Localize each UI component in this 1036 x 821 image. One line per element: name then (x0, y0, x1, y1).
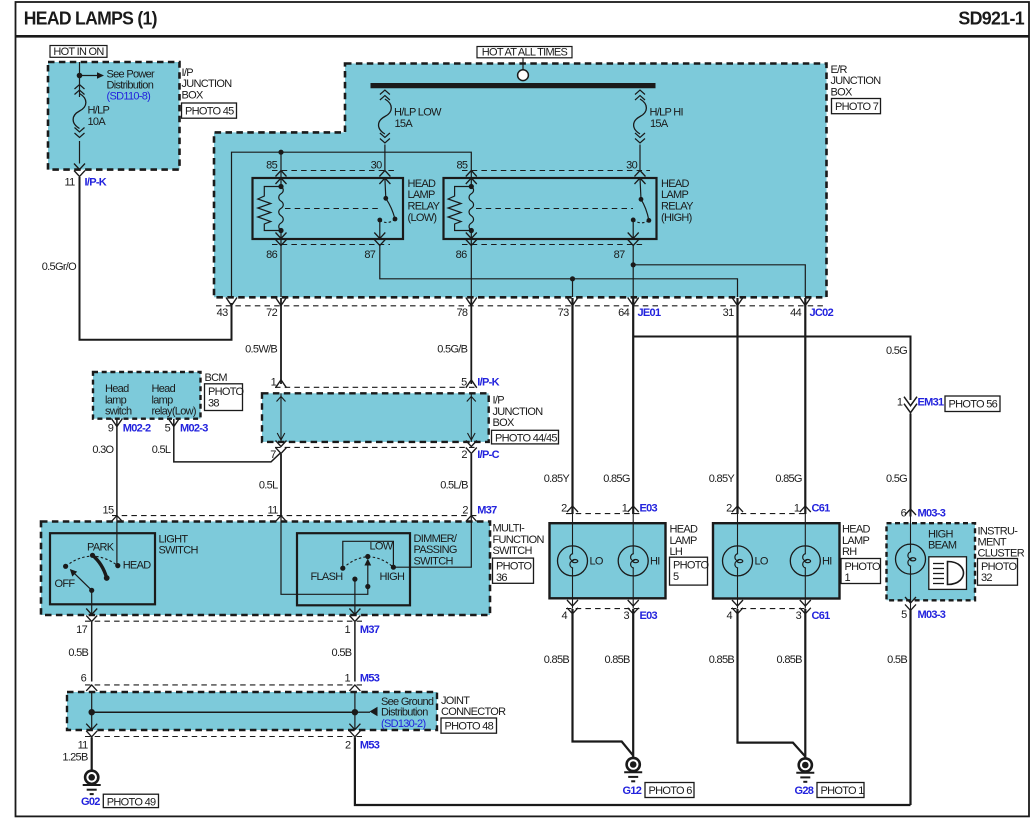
label (SD110-8) blue (107, 91, 151, 103)
svg-text:SWITCH: SWITCH (493, 545, 533, 557)
label See Power Distribution (107, 68, 156, 91)
svg-text:LO: LO (590, 556, 604, 568)
photo box PHOTO 48 (441, 718, 497, 733)
svg-text:LIGHT: LIGHT (159, 533, 189, 545)
svg-text:0.5W/B: 0.5W/B (245, 344, 277, 356)
label LOW (370, 541, 394, 553)
pin 30 label (relay low) (371, 159, 382, 171)
connector I/P-K label blue (pin 5) (477, 377, 499, 389)
svg-text:0.5L: 0.5L (152, 444, 171, 456)
svg-text:JE01: JE01 (638, 307, 661, 319)
wire fuse hi to relay 30 (639, 145, 641, 171)
label 1.25B (62, 752, 88, 764)
label 0.3O (92, 444, 114, 456)
svg-text:(HIGH): (HIGH) (661, 212, 692, 224)
pin 5 label (M03-3) (901, 609, 907, 621)
svg-text:Distribution: Distribution (107, 79, 154, 91)
svg-text:PHOTO 48: PHOTO 48 (445, 720, 494, 732)
wire relay low 87 to pins 73/31 (380, 246, 738, 297)
svg-text:6: 6 (901, 508, 907, 520)
svg-text:E03: E03 (640, 610, 658, 622)
svg-text:EM31: EM31 (918, 397, 945, 409)
relay low switch (377, 178, 397, 239)
svg-text:5: 5 (901, 609, 907, 621)
JC bus junction dot right (352, 709, 358, 715)
svg-text:PHOTO 44/45: PHOTO 44/45 (495, 433, 557, 445)
label 0.85Y RH (709, 473, 736, 485)
pin 72 exit chevron (E/R bottom) (276, 298, 287, 306)
pin 86 label (relay high) (456, 249, 467, 261)
label PARK (87, 542, 115, 554)
multi-function switch box (cyan dashed) (41, 522, 490, 616)
svg-text:0.85B: 0.85B (777, 654, 803, 666)
head lamp relay LOW box (253, 178, 404, 239)
label Head lamp switch (105, 383, 132, 417)
pin 2 entry chevrons (MFS) (466, 516, 477, 531)
relay HIGH connector dashed line top (462, 170, 650, 172)
svg-text:LAMP: LAMP (670, 535, 698, 547)
photo box PHOTO 38 (205, 384, 245, 411)
see ground distribution arrow (355, 707, 378, 716)
connector C61 label blue (top) (812, 503, 831, 515)
pin 4 exit chevrons (E03) (567, 600, 578, 614)
title HEAD LAMPS (1) (24, 9, 158, 29)
wire 1.25B to ground G02 (91, 737, 93, 771)
pin 85 label (relay low) (266, 159, 277, 171)
svg-text:LH: LH (670, 546, 683, 558)
svg-text:86: 86 (266, 249, 277, 261)
svg-text:SD921-1: SD921-1 (958, 9, 1024, 29)
svg-text:11: 11 (78, 740, 89, 752)
svg-text:5: 5 (673, 571, 679, 583)
svg-text:BOX: BOX (493, 417, 515, 429)
ground G28 label blue (795, 785, 814, 797)
svg-text:0.5Gr/O: 0.5Gr/O (42, 261, 77, 273)
wire 15 to HEAD contact (116, 516, 118, 564)
svg-text:2: 2 (561, 503, 567, 515)
JC ground bus line (92, 711, 355, 713)
label LIGHT SWITCH (159, 533, 199, 556)
JC bus junction dot left (89, 709, 95, 715)
svg-text:44: 44 (790, 307, 801, 319)
joint connector box (cyan dashed) (67, 692, 437, 730)
svg-text:I/P: I/P (182, 67, 194, 79)
svg-text:3: 3 (796, 610, 802, 622)
in-line connector EM31 chevrons (904, 397, 917, 413)
svg-text:H/LP HI: H/LP HI (650, 106, 684, 118)
svg-text:PHOTO: PHOTO (981, 561, 1018, 573)
svg-text:PHOTO 45: PHOTO 45 (185, 105, 234, 117)
label HEAD LAMP RELAY (HIGH) (661, 178, 694, 224)
svg-text:(LOW): (LOW) (408, 212, 437, 224)
I/P junction box middle (cyan dashed) (262, 393, 489, 442)
pin 86 high exit chevrons (466, 233, 477, 246)
high beam indicator bulb (896, 517, 926, 611)
svg-text:HEAD: HEAD (661, 178, 690, 190)
pin 85 label (relay high) (456, 159, 467, 171)
pin 3 exit chevrons (C61) (800, 600, 811, 614)
JC bottom connector dashed line (85, 736, 362, 738)
wire 0.5B long (M53 2 to cluster 5) (355, 737, 911, 805)
svg-text:LOW: LOW (370, 541, 394, 553)
label MULTI-FUNCTION SWITCH (493, 523, 545, 557)
svg-text:HI: HI (822, 556, 832, 568)
svg-text:36: 36 (496, 572, 507, 584)
svg-text:FLASH: FLASH (311, 571, 344, 583)
pin 44 label (790, 307, 801, 319)
svg-text:6: 6 (81, 672, 87, 684)
wire 0.5B (cluster 5 to bottom) (909, 610, 911, 805)
svg-text:M53: M53 (360, 672, 380, 684)
pin 85 low entry chevrons (276, 171, 287, 185)
RH HI bulb (790, 514, 820, 609)
svg-text:JOINT: JOINT (441, 695, 470, 707)
label OFF (55, 578, 76, 590)
connector E03 label blue (bottom) (640, 610, 658, 622)
pin 2 label (MFS) (462, 505, 468, 517)
svg-text:0.85B: 0.85B (544, 654, 570, 666)
label BCM (205, 372, 228, 384)
pin 30 label (relay high) (626, 159, 637, 171)
svg-text:73: 73 (558, 307, 569, 319)
pin 31 exit chevron (E/R bottom) (732, 298, 743, 306)
pin 5 exit chevrons (M03-3) (905, 597, 916, 610)
svg-text:M03-3: M03-3 (918, 609, 946, 621)
svg-text:11: 11 (267, 505, 278, 517)
wire branch down to pin 73 (572, 279, 574, 297)
wire 0.5L/B (I/P JB 2 to MFS 2) (470, 454, 472, 516)
photo box PHOTO 6 (645, 783, 694, 798)
svg-text:5: 5 (165, 423, 171, 435)
svg-text:15A: 15A (395, 118, 414, 130)
svg-text:64: 64 (618, 307, 629, 319)
dimmer moving arm (arrow) (364, 559, 371, 590)
pin 17 label (76, 624, 87, 636)
pin 2 exit chevrons (M53) (349, 724, 360, 737)
light switch actuator arm (70, 569, 94, 593)
svg-text:3: 3 (623, 610, 629, 622)
wire 0.5L (I/P JB 7 to MFS 11) (280, 454, 282, 516)
svg-text:BOX: BOX (831, 86, 853, 98)
svg-text:5: 5 (461, 377, 467, 389)
connector M03-3 label blue (top) (918, 508, 946, 520)
label 0.85G LH (603, 473, 630, 485)
fuse H/LP 10A symbol (73, 85, 86, 138)
label 0.5L BCM (152, 444, 171, 456)
svg-text:HEAD: HEAD (842, 524, 871, 536)
label H/LP LOW 15A (394, 106, 442, 130)
label 0.5L lower (259, 480, 278, 492)
pin 64 exit chevron (E/R bottom) (628, 298, 639, 306)
wire relay low 86 to pin 72 (280, 231, 282, 298)
label H/LP HI 15A (650, 106, 684, 130)
svg-text:M02-3: M02-3 (180, 423, 208, 435)
wire 0.85Y (31 to RH LO) (736, 298, 738, 514)
svg-text:H/LP: H/LP (88, 105, 110, 117)
photo box PHOTO 36 (493, 558, 534, 584)
junction dot at pin 73 branch (570, 276, 575, 281)
label HI (RH) (822, 556, 832, 568)
wire relay high 86 to pin 78 (470, 231, 472, 298)
svg-text:I/P-K: I/P-K (85, 177, 107, 189)
wire 2 to HIGH contact (393, 516, 471, 567)
power bus bar (371, 83, 656, 88)
wire 85 low drop (280, 152, 282, 186)
svg-text:OFF: OFF (55, 578, 76, 590)
label DIMMER/PASSING SWITCH (414, 533, 458, 567)
label Head lamp relay(Low) (152, 383, 196, 417)
connector M37 label blue (top) (477, 505, 497, 517)
svg-text:BOX: BOX (182, 89, 204, 101)
photo box PHOTO 1 (G28) (817, 783, 864, 798)
light switch contact dots (63, 553, 120, 569)
pin 7 exit chevrons (276, 441, 287, 454)
pin 87 label (relay low) (364, 249, 375, 261)
wire 0.85G (64 to LH HI) (632, 298, 634, 514)
relay LOW connector dashed line top (272, 170, 395, 172)
label box HOT AT ALL TIMES (477, 47, 572, 59)
E/R junction box (cyan dashed, notched) (214, 64, 827, 298)
svg-text:1.25B: 1.25B (62, 752, 88, 764)
wire 11 to dimmer arm (281, 516, 368, 594)
LH top connector dashed line (566, 513, 640, 515)
light switch wiper blade (thick) (93, 555, 110, 581)
label 0.85B LH HI (604, 654, 630, 666)
svg-text:32: 32 (981, 572, 992, 584)
pin 11 label (MFS) (267, 505, 278, 517)
LH bottom connector dashed line (566, 608, 640, 610)
pin 5 exit chevron (168, 419, 179, 427)
pin 3 label (C61) (796, 610, 802, 622)
pin 5 label (165, 423, 171, 435)
svg-text:HEAD: HEAD (670, 524, 699, 536)
svg-text:PHOTO: PHOTO (496, 560, 533, 572)
svg-text:1: 1 (845, 572, 851, 584)
label LO (RH) (755, 556, 769, 568)
connector I/P-K label blue (85, 177, 107, 189)
wire 0.5Gr/O (I/P-K 11 to E/R 43) (80, 177, 232, 340)
svg-text:78: 78 (456, 307, 467, 319)
svg-text:HEAD LAMPS (1): HEAD LAMPS (1) (24, 9, 158, 29)
svg-text:2: 2 (461, 449, 467, 461)
svg-text:H/LP LOW: H/LP LOW (394, 106, 442, 118)
dimmer position arc (dashed) (343, 557, 394, 568)
wire from HOT IN ON feed (79, 62, 81, 97)
svg-text:38: 38 (208, 398, 219, 410)
svg-text:87: 87 (614, 249, 625, 261)
relay HIGH connector dashed line bottom (462, 244, 643, 246)
ground symbol G28 (796, 758, 814, 781)
I/P JB internal link pin1-7 (277, 393, 286, 442)
label 0.5L/B (440, 480, 468, 492)
LH LO bulb (558, 514, 588, 609)
relay low coil (258, 184, 284, 233)
ground G02 label blue (81, 796, 100, 808)
svg-text:C61: C61 (812, 503, 831, 515)
label 0.85G RH (775, 473, 802, 485)
svg-text:1: 1 (344, 624, 350, 636)
svg-text:PARK: PARK (87, 542, 115, 554)
wire fuse to connector 11 (79, 141, 81, 164)
label 0.85B RH LO (709, 654, 735, 666)
svg-text:switch: switch (105, 406, 132, 418)
pin 30 low entry chevrons (379, 171, 390, 185)
svg-text:0.3O: 0.3O (92, 444, 114, 456)
RH top connector dashed line (731, 513, 805, 515)
svg-text:0.5B: 0.5B (68, 647, 88, 659)
pin 11 entry chevrons (276, 516, 287, 531)
svg-text:HEAD: HEAD (123, 560, 152, 572)
fuse H/LP HI 15A symbol (634, 90, 647, 143)
pin 1 label (C61) (794, 503, 800, 515)
LH HI bulb (618, 514, 648, 609)
pin 73 label (558, 307, 569, 319)
wire 0.85B LH LO to G12 (573, 609, 634, 756)
dimmer flash-high bridge wire (343, 541, 394, 568)
label See Ground Distribution (381, 696, 434, 718)
svg-text:Head: Head (105, 383, 129, 395)
svg-text:LAMP: LAMP (408, 189, 436, 201)
svg-text:MULTI-: MULTI- (493, 523, 526, 535)
svg-text:Distribution: Distribution (381, 706, 428, 718)
label 0.5B right (887, 654, 907, 666)
connector M02-3 label blue (180, 423, 208, 435)
I/P JB bottom connector dashed line (275, 446, 477, 448)
node/junction dot on feed (77, 73, 83, 79)
pin 2 label (M53) (345, 740, 351, 752)
pin 43 exit chevron (E/R bottom) (226, 298, 237, 306)
wire 0.3O (BCM 9 to light switch 15) (116, 419, 118, 516)
svg-text:HOT IN ON: HOT IN ON (53, 46, 104, 58)
svg-text:72: 72 (266, 307, 277, 319)
pin 5 label (I/P JB) (461, 377, 467, 389)
svg-text:BCM: BCM (205, 372, 228, 384)
label INSTRUMENT CLUSTER (978, 525, 1025, 559)
label 0.5B mid (332, 647, 352, 659)
svg-text:PHOTO 1: PHOTO 1 (821, 785, 865, 797)
page code SD921-1 (958, 9, 1024, 29)
wire coil feed rail (43 to both relay 85) (232, 152, 472, 297)
pin 6 entry chevrons (86, 685, 97, 700)
label HIGH BEAM (928, 529, 957, 552)
pin 78 exit chevron (E/R bottom) (466, 298, 477, 306)
pin 3 label (E03) (623, 610, 629, 622)
svg-text:M02-2: M02-2 (123, 423, 151, 435)
label HEAD LAMP RELAY (LOW) (408, 178, 441, 224)
pin 1 label (EM31) (897, 397, 903, 409)
pin 2 exit chevrons (466, 441, 477, 454)
light switch position arc (dashed) (66, 556, 118, 566)
label 0.85B RH HI (777, 654, 803, 666)
svg-text:2: 2 (462, 505, 468, 517)
svg-text:I/P-C: I/P-C (477, 449, 499, 461)
svg-text:15: 15 (103, 505, 114, 517)
pin 15 entry chevrons (111, 516, 122, 531)
svg-text:86: 86 (456, 249, 467, 261)
pin 4 label (C61) (726, 610, 732, 622)
svg-text:Head: Head (152, 383, 176, 395)
svg-text:E03: E03 (640, 503, 658, 515)
svg-text:43: 43 (217, 307, 228, 319)
svg-text:2: 2 (726, 503, 732, 515)
label box HOT IN ON (50, 46, 107, 58)
pin 9 exit chevron (111, 419, 122, 427)
pin 5 entry chevron (466, 380, 477, 388)
pin 7 label (270, 449, 276, 461)
label H/LP 10A (88, 105, 110, 128)
svg-text:M37: M37 (477, 505, 497, 517)
photo box PHOTO 56 (945, 396, 1000, 412)
battery feed stem and terminal circle (518, 58, 529, 81)
pin 1 entry chevrons (M53) (349, 685, 360, 700)
pin 31 label (723, 307, 734, 319)
svg-text:4: 4 (726, 610, 732, 622)
svg-text:0.5L/B: 0.5L/B (440, 480, 468, 492)
JC internal wire right (354, 692, 356, 730)
MFS top connector dashed line (112, 515, 477, 517)
svg-text:G02: G02 (81, 796, 100, 808)
I/P JB top connector dashed line (275, 386, 477, 388)
dimmer passing switch box (297, 533, 410, 605)
svg-text:PHOTO 7: PHOTO 7 (835, 101, 879, 113)
svg-text:85: 85 (456, 159, 467, 171)
svg-text:BEAM: BEAM (928, 540, 957, 552)
svg-text:DIMMER/: DIMMER/ (414, 533, 458, 545)
svg-text:M53: M53 (360, 740, 380, 752)
pin 78 label (456, 307, 467, 319)
pin 1 exit chevrons (M37) (349, 609, 360, 622)
connector JC02 label blue (810, 307, 834, 319)
label HI (LH) (650, 556, 660, 568)
pin 73 exit chevron (E/R bottom) (567, 298, 578, 306)
wire 0.85B RH HI to G28 (804, 609, 806, 759)
pin 15 label (103, 505, 114, 517)
svg-text:0.5B: 0.5B (887, 654, 907, 666)
svg-text:HI: HI (650, 556, 660, 568)
label 0.5G upper (886, 345, 907, 357)
label 0.5Gr/O (42, 261, 77, 273)
svg-text:MENT: MENT (978, 537, 1007, 549)
svg-text:0.5G: 0.5G (886, 473, 907, 485)
svg-text:HEAD: HEAD (408, 178, 437, 190)
svg-text:G12: G12 (623, 785, 642, 797)
svg-text:1: 1 (622, 503, 628, 515)
pin 11 label (M53) (78, 740, 89, 752)
connector C61 label blue (bottom) (812, 610, 831, 622)
svg-text:0.85G: 0.85G (603, 473, 630, 485)
svg-text:31: 31 (723, 307, 734, 319)
photo box PHOTO 7 (832, 99, 881, 114)
svg-text:I/P-K: I/P-K (477, 377, 499, 389)
svg-text:JUNCTION: JUNCTION (831, 75, 882, 87)
ground symbol G02 (83, 771, 101, 794)
connector M53 label blue (bottom) (360, 740, 380, 752)
label E/R JUNCTION BOX (831, 64, 882, 98)
relay low internal dashed link (285, 208, 380, 210)
label HEAD LAMP RH (842, 524, 871, 558)
svg-text:FUNCTION: FUNCTION (493, 534, 545, 546)
connector EM31 label blue (918, 397, 945, 409)
label JOINT CONNECTOR (441, 695, 506, 718)
wire 0.5B (17 to JC 6) (91, 622, 93, 682)
svg-text:LO: LO (755, 556, 769, 568)
connector M53 label blue (top) (360, 672, 380, 684)
pin 1 entry chevrons (E03) (628, 506, 639, 529)
relay LOW connector dashed line bottom (272, 244, 390, 246)
svg-text:SWITCH: SWITCH (414, 555, 454, 567)
label 0.85B LH LO (544, 654, 570, 666)
svg-text:relay(Low): relay(Low) (152, 406, 196, 418)
